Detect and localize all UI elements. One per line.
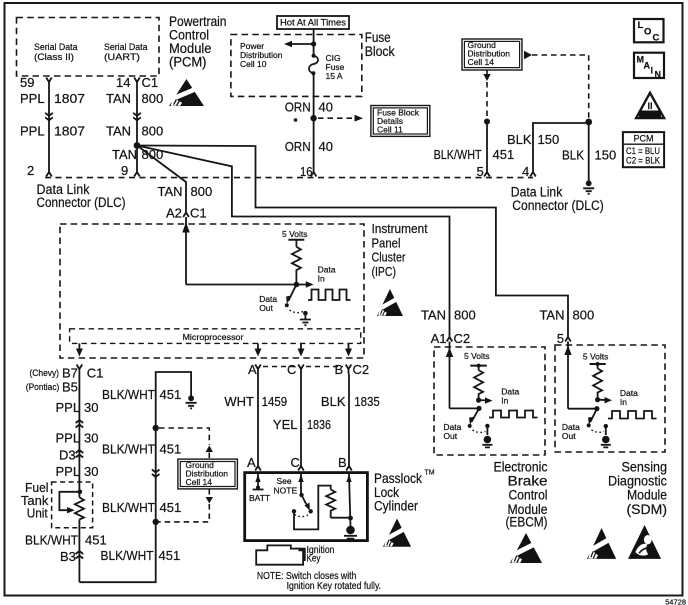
switch data out (SDM) <box>587 409 608 435</box>
arrow microprocessor to pin B <box>345 343 352 356</box>
module label Data Link Connector (DLC) left <box>37 182 126 210</box>
svg-text:C1 = BLU: C1 = BLU <box>626 146 660 156</box>
svg-text:Cylinder: Cylinder <box>374 499 418 514</box>
svg-text:BLK: BLK <box>321 394 346 409</box>
svg-text:Out: Out <box>562 431 576 441</box>
arrow microprocessor to pin B7 <box>76 343 83 356</box>
value label PPL 30 row 1 <box>56 400 99 415</box>
svg-text:1807: 1807 <box>54 91 85 106</box>
svg-text:A: A <box>247 455 256 470</box>
svg-text:2: 2 <box>27 163 34 178</box>
pin 14 C1 (PCM) <box>116 75 158 90</box>
svg-text:B: B <box>338 455 347 470</box>
svg-text:9: 9 <box>121 163 128 178</box>
svg-text:Key: Key <box>307 554 321 565</box>
module Passlock Lock Cylinder outline <box>245 473 368 541</box>
wire TAN 800 (junction to DLC 9) <box>136 146 138 173</box>
svg-text:C: C <box>653 33 660 44</box>
svg-text:16: 16 <box>300 164 313 179</box>
fuel tank sender wiper <box>59 489 82 513</box>
label Data Out (IPC) <box>259 294 277 313</box>
wire switch contact to resistor (Passlock) <box>294 486 331 530</box>
pin 9 (DLC) <box>121 163 140 178</box>
svg-text:OBD II: OBD II <box>642 112 659 118</box>
svg-text:4: 4 <box>522 164 529 179</box>
svg-text:Fuse: Fuse <box>365 30 391 45</box>
svg-text:BATT: BATT <box>249 493 270 503</box>
svg-text:1459: 1459 <box>262 394 288 409</box>
module label Fuel Tank Unit <box>21 480 49 521</box>
svg-text:14: 14 <box>116 75 130 90</box>
dashed wire Ground Distribution to BLK 150 junction <box>532 55 589 119</box>
svg-text:II: II <box>647 101 652 111</box>
svg-text:Instrument: Instrument <box>372 222 428 236</box>
square wave signal (EBCM) <box>489 411 538 418</box>
ground G IPC case <box>186 395 197 408</box>
resistor pull-up (IPC) <box>292 247 301 285</box>
svg-text:Brake: Brake <box>508 474 548 489</box>
resistor fuel tank sender <box>75 497 84 519</box>
svg-text:C2: C2 <box>454 331 471 346</box>
value label CIG Fuse 15 A <box>326 53 345 81</box>
reference arrow to Fuse Block Details <box>318 115 363 122</box>
svg-text:BLK: BLK <box>507 132 532 147</box>
pin B7 C1 (IPC bottom) <box>77 365 83 375</box>
junction data node (SDM) <box>594 397 600 411</box>
module EBCM dashed outline <box>434 347 545 455</box>
svg-text:B: B <box>335 362 344 377</box>
svg-text:BLK/WHT: BLK/WHT <box>101 548 154 563</box>
resistor pull-up (SDM) <box>593 369 602 400</box>
value label TAN 800 row 3 <box>112 147 163 162</box>
svg-text:451: 451 <box>159 548 181 563</box>
svg-text:Cell 14: Cell 14 <box>186 477 213 487</box>
arrow microprocessor to pin C <box>298 343 305 356</box>
svg-text:Electronic: Electronic <box>494 460 548 475</box>
pin 5 (DLC) <box>477 164 490 179</box>
wire BLK 150 (DLC 4 to junction) <box>533 123 589 172</box>
wire BLK/WHT 451 (splice to splice) <box>152 428 160 522</box>
net label Serial Data (Class II) <box>34 42 78 63</box>
5 volts supply (IPC) <box>282 229 308 247</box>
pin 59 (PCM) <box>20 75 52 90</box>
svg-text:Hot At All Times: Hot At All Times <box>280 18 347 28</box>
svg-text:(UART): (UART) <box>104 52 140 63</box>
svg-text:TAN: TAN <box>539 308 564 323</box>
pin A (Passlock) <box>247 455 261 471</box>
label Hot At All Times <box>277 16 349 29</box>
value label BLK 150 row 1 <box>507 132 559 147</box>
module IPC dashed outline <box>60 224 364 358</box>
svg-text:5: 5 <box>557 331 564 346</box>
svg-text:30: 30 <box>84 464 98 479</box>
svg-text:(Chevy): (Chevy) <box>30 368 60 378</box>
pin label (Chevy) B7 C1 <box>30 366 104 381</box>
pin label (Pontiac) B5 <box>26 380 78 395</box>
value label YEL 1836 <box>273 417 331 432</box>
fuse block dashed outline <box>231 35 362 97</box>
svg-text:PPL: PPL <box>20 91 45 106</box>
arrow microprocessor to pin A <box>255 343 262 356</box>
symbol LOC page reference <box>634 19 664 44</box>
svg-text:Connector (DLC): Connector (DLC) <box>37 195 126 210</box>
junction BLK/WHT splice S1 <box>153 425 159 431</box>
svg-text:Cell 11: Cell 11 <box>377 125 403 135</box>
svg-text:5 Volts: 5 Volts <box>282 229 308 239</box>
pin A2 C1 (IPC) <box>166 206 207 221</box>
ESD warning symbol U1 PCM <box>169 79 204 106</box>
wire EBCM data input <box>446 342 479 409</box>
data in arrow (SDM) <box>598 388 639 407</box>
ground (EBCM data out) <box>482 436 492 448</box>
svg-text:BLK/WHT: BLK/WHT <box>102 387 155 402</box>
legend PCM connector colors <box>623 132 664 167</box>
ground G101 (BLK 150) <box>583 180 594 193</box>
module label Passlock TM Lock Cylinder <box>374 470 435 514</box>
svg-text:BLK/WHT: BLK/WHT <box>434 147 482 162</box>
label Data Out (SDM) <box>562 422 580 441</box>
value label BLK/WHT 451 second <box>102 442 181 457</box>
value label TAN 800 row 1 <box>106 91 163 106</box>
svg-text:15 A: 15 A <box>326 71 343 81</box>
svg-text:BLK/WHT: BLK/WHT <box>102 500 155 515</box>
svg-text:PPL: PPL <box>56 431 81 446</box>
fuse CIG Fuse 15 A <box>309 54 318 75</box>
value label BLK/WHT 451 top <box>102 387 181 402</box>
svg-text:A2: A2 <box>166 206 182 221</box>
svg-text:L: L <box>638 20 644 31</box>
svg-text:Out: Out <box>443 431 457 441</box>
wire B to ground (Passlock) <box>346 474 353 527</box>
label Ignition Key <box>307 545 335 565</box>
wire BLK 1835 (IPC B to Passlock B) <box>348 374 350 462</box>
svg-text:C1: C1 <box>142 75 159 90</box>
svg-text:5 Volts: 5 Volts <box>583 352 609 362</box>
svg-text:Microprocessor: Microprocessor <box>183 332 244 342</box>
value label BLK/WHT 451 third <box>102 500 181 515</box>
svg-text:I: I <box>651 66 654 76</box>
svg-text:(Pontiac): (Pontiac) <box>26 382 60 392</box>
svg-text:(Class II): (Class II) <box>34 52 74 63</box>
svg-text:TAN: TAN <box>421 308 446 323</box>
module label Sensing Diagnostic Module (SDM) <box>608 460 667 518</box>
pin 2 (DLC) <box>27 163 52 178</box>
module label Instrument Panel Cluster (IPC) <box>372 222 428 279</box>
pin 5 (SDM) <box>557 331 571 346</box>
svg-text:Out: Out <box>259 303 273 313</box>
dashed reference to Ground Distribution upper <box>159 428 213 459</box>
svg-text:C2 = BLK: C2 = BLK <box>626 156 660 166</box>
value label PPL 1807 row 2 <box>20 124 85 139</box>
svg-text:Diagnostic: Diagnostic <box>608 474 667 489</box>
svg-text:TAN: TAN <box>112 147 137 162</box>
svg-text:Cell 14: Cell 14 <box>468 57 495 67</box>
svg-text:BLK/WHT: BLK/WHT <box>102 442 155 457</box>
switch data out (IPC) <box>285 285 308 320</box>
svg-text:Module: Module <box>627 488 667 503</box>
value label PPL 1807 row 1 <box>20 91 85 106</box>
svg-text:C2: C2 <box>353 362 370 377</box>
fuel tank unit dashed outline <box>52 482 93 528</box>
label box Ground Distribution Cell 14 (top) <box>462 39 522 70</box>
svg-text:451: 451 <box>160 442 182 457</box>
value label PPL 30 row 3 <box>56 464 99 479</box>
svg-text:1835: 1835 <box>354 394 380 409</box>
value label BLK 1835 <box>321 394 380 409</box>
svg-text:451: 451 <box>160 387 182 402</box>
svg-text:NOTE: NOTE <box>274 486 298 496</box>
svg-text:(IPC): (IPC) <box>372 265 397 279</box>
pin A1 C2 (EBCM) <box>431 331 471 346</box>
svg-text:Sensing: Sensing <box>622 460 668 475</box>
symbol MAIN page reference <box>634 53 664 80</box>
svg-text:Panel: Panel <box>372 236 401 250</box>
svg-text:TAN: TAN <box>106 124 131 139</box>
svg-text:800: 800 <box>142 91 164 106</box>
svg-text:Ignition Key rotated fully.: Ignition Key rotated fully. <box>287 581 382 592</box>
pin label B3 <box>60 549 76 564</box>
svg-text:TM: TM <box>425 470 435 477</box>
junction BLK 150 <box>585 119 592 126</box>
value label BLK/WHT 451 <box>434 147 515 162</box>
svg-text:Connector (DLC): Connector (DLC) <box>512 198 604 213</box>
reference arrow to Power Distribution <box>284 41 314 47</box>
svg-text:N: N <box>655 70 662 80</box>
data in arrow (EBCM) <box>479 387 520 406</box>
wire SDM data input <box>564 342 597 409</box>
module label Electronic Brake Control Module (EBCM) <box>494 460 548 530</box>
wire TAN 800 branch to IPC A2 <box>137 146 186 213</box>
wire IPC serial data input <box>182 217 296 285</box>
svg-text:In: In <box>318 274 325 284</box>
svg-text:5 Volts: 5 Volts <box>464 351 490 361</box>
svg-text:5: 5 <box>477 164 484 179</box>
svg-text:TAN: TAN <box>106 91 131 106</box>
wire YEL 1836 (IPC C to Passlock C) <box>300 374 302 462</box>
wire resistor to B net (Passlock) <box>331 517 351 519</box>
wire PPL 30 (IPC B7 to fuel tank unit) <box>76 374 84 497</box>
pin C (IPC bottom) <box>287 362 304 377</box>
junction BLK/WHT splice S2 <box>153 519 159 525</box>
svg-text:C1: C1 <box>190 206 207 221</box>
junction TAN 800 splice <box>134 142 141 149</box>
module label Fuse Block <box>365 30 395 59</box>
svg-text:(PCM): (PCM) <box>169 55 207 70</box>
svg-text:C1: C1 <box>87 366 104 381</box>
wire TAN 800 (PCM 14 to junction) <box>133 82 141 146</box>
svg-text:Unit: Unit <box>27 506 48 521</box>
resistor passlock sensor <box>326 490 335 518</box>
connector strip IPC bottom <box>263 366 343 368</box>
wire fuse feed <box>313 29 315 56</box>
SIR warning symbol SDM <box>628 525 661 559</box>
svg-text:40: 40 <box>319 139 333 154</box>
svg-text:C: C <box>287 362 296 377</box>
svg-text:D3: D3 <box>59 448 76 463</box>
svg-text:O: O <box>644 27 651 38</box>
symbol OBD II triangle <box>636 93 664 119</box>
ground (SDM data out) <box>601 436 611 448</box>
note text <box>257 571 381 592</box>
switch passlock (C wire) <box>292 474 313 517</box>
wire BLK/WHT 451 (IPC ground leg) <box>156 372 191 428</box>
value label BLK/WHT 451 fourth <box>101 548 181 563</box>
svg-text:Control: Control <box>509 488 548 503</box>
svg-text:(EBCM): (EBCM) <box>506 515 548 530</box>
svg-text:40: 40 <box>319 100 333 115</box>
switch data out (EBCM) <box>468 408 490 435</box>
svg-text:B3: B3 <box>60 549 76 564</box>
square wave signal (SDM) <box>608 411 657 419</box>
part number 54728 <box>665 598 686 605</box>
svg-text:PCM: PCM <box>634 134 654 144</box>
svg-text:59: 59 <box>20 75 34 90</box>
ESD warning symbol SDM <box>587 528 616 559</box>
ESD warning symbol IPC <box>377 289 403 316</box>
label box Ground Distribution Cell 14 (bottom) <box>178 459 238 489</box>
svg-text:800: 800 <box>573 308 595 323</box>
pin A (IPC bottom) <box>248 362 261 377</box>
svg-text:150: 150 <box>595 148 617 163</box>
svg-text:TAN: TAN <box>158 184 183 199</box>
svg-text:ORN: ORN <box>285 139 311 154</box>
svg-text:In: In <box>620 397 627 407</box>
data in arrow (IPC) <box>296 265 335 288</box>
pin label D3 <box>59 448 76 463</box>
svg-text:Cell 10: Cell 10 <box>240 59 267 69</box>
value label TAN 800 row 2 <box>106 124 163 139</box>
svg-text:A: A <box>644 61 651 71</box>
ESD warning symbol Passlock <box>383 519 411 547</box>
svg-text:BLK/WHT: BLK/WHT <box>25 533 78 548</box>
svg-text:30: 30 <box>84 400 98 415</box>
label box Fuse Block Details Cell 11 <box>371 106 430 137</box>
connector PCM dashed outline <box>17 18 160 77</box>
ignition key symbol <box>256 545 305 564</box>
svg-text:B7: B7 <box>62 366 78 381</box>
label Data Out (EBCM) <box>443 422 461 441</box>
svg-text:PPL: PPL <box>56 400 81 415</box>
wire TAN 800 branch to EBCM A1 <box>137 146 450 333</box>
label Power Distribution Cell 10 <box>240 41 283 69</box>
dashed reference to Ground Distribution lower <box>158 489 213 522</box>
svg-text:150: 150 <box>538 132 560 147</box>
value label ORN 40 row 1 <box>285 100 333 115</box>
connector DLC strip <box>45 177 533 179</box>
value label TAN 800 (A2 branch) <box>158 184 213 199</box>
wire BLK/WHT 451 to DLC 5 <box>486 122 488 173</box>
junction data node (EBCM) <box>476 398 482 412</box>
ground (Passlock) <box>344 526 357 542</box>
svg-text:(SDM): (SDM) <box>627 502 668 517</box>
reference arrow right from Ground Distribution <box>524 51 532 59</box>
pin 16 (DLC) <box>300 164 316 179</box>
svg-text:451: 451 <box>160 500 182 515</box>
svg-text:A1: A1 <box>431 331 447 346</box>
value label TAN 800 (SDM) <box>539 308 594 323</box>
svg-text:YEL: YEL <box>273 417 298 432</box>
svg-text:PPL: PPL <box>20 124 45 139</box>
microprocessor block (IPC) <box>70 329 361 344</box>
5 volts supply (EBCM) <box>464 351 490 370</box>
pin B C2 (IPC bottom) <box>335 362 370 377</box>
svg-text:800: 800 <box>142 124 164 139</box>
junction power distribution tap <box>311 41 316 46</box>
svg-text:451: 451 <box>493 147 515 162</box>
svg-text:C: C <box>291 455 300 470</box>
5 volts supply (SDM) <box>583 352 609 369</box>
ground (IPC data out) <box>300 320 311 326</box>
wire WHT 1459 (IPC A to Passlock A) <box>257 374 259 462</box>
svg-text:800: 800 <box>191 184 213 199</box>
square wave signal (IPC) <box>308 290 351 301</box>
svg-text:WHT: WHT <box>224 394 254 409</box>
module label Powertrain Control Module (PCM) <box>169 14 227 70</box>
svg-text:1836: 1836 <box>307 417 331 432</box>
svg-text:PPL: PPL <box>56 464 81 479</box>
svg-text:Cluster: Cluster <box>372 251 406 265</box>
BATT terminal (Passlock) <box>249 474 270 503</box>
svg-text:800: 800 <box>454 308 476 323</box>
svg-text:Passlock: Passlock <box>374 471 422 486</box>
junction data node (IPC) <box>294 282 300 288</box>
value label PPL 30 row 2 <box>56 431 99 446</box>
junction BLK/WHT 451 <box>484 119 490 125</box>
label See NOTE <box>274 476 298 496</box>
junction ORN 40 splice <box>294 115 317 122</box>
svg-text:54728: 54728 <box>665 598 686 605</box>
pin C (Passlock) <box>291 455 304 471</box>
wire ORN 40 (fuse to DLC 16) <box>313 73 315 172</box>
resistor pull-up (EBCM) <box>474 370 483 400</box>
value label BLK 150 row 2 <box>562 148 616 163</box>
svg-text:In: In <box>501 396 508 406</box>
pin B (Passlock) <box>338 455 352 471</box>
wire BLK 150 to ground <box>588 122 590 181</box>
reference arrow down from Ground Distribution <box>483 70 490 119</box>
svg-text:B5: B5 <box>62 380 78 395</box>
wire PPL 1807 (PCM 59 to DLC 2) <box>45 82 53 172</box>
value label BLK/WHT 451 (fuel tank) <box>25 533 107 548</box>
value label ORN 40 row 2 <box>285 139 333 154</box>
module label Data Link Connector (DLC) right <box>511 185 604 214</box>
module SDM dashed outline <box>555 345 665 452</box>
wire TAN 800 branch to SDM 5 <box>137 146 568 333</box>
svg-text:30: 30 <box>84 431 98 446</box>
svg-text:1807: 1807 <box>54 124 85 139</box>
wire BLK/WHT 451 (fuel tank to splice) <box>76 519 156 582</box>
pin 4 (DLC) <box>522 164 536 179</box>
svg-text:ORN: ORN <box>285 100 311 115</box>
svg-text:451: 451 <box>85 533 107 548</box>
net label Serial Data (UART) <box>104 42 148 63</box>
value label TAN 800 (EBCM) <box>421 308 476 323</box>
ESD warning symbol EBCM <box>510 533 542 563</box>
svg-text:Block: Block <box>365 44 395 59</box>
value label WHT 1459 <box>224 394 287 409</box>
svg-text:See: See <box>277 476 292 486</box>
svg-text:BLK: BLK <box>562 148 584 163</box>
